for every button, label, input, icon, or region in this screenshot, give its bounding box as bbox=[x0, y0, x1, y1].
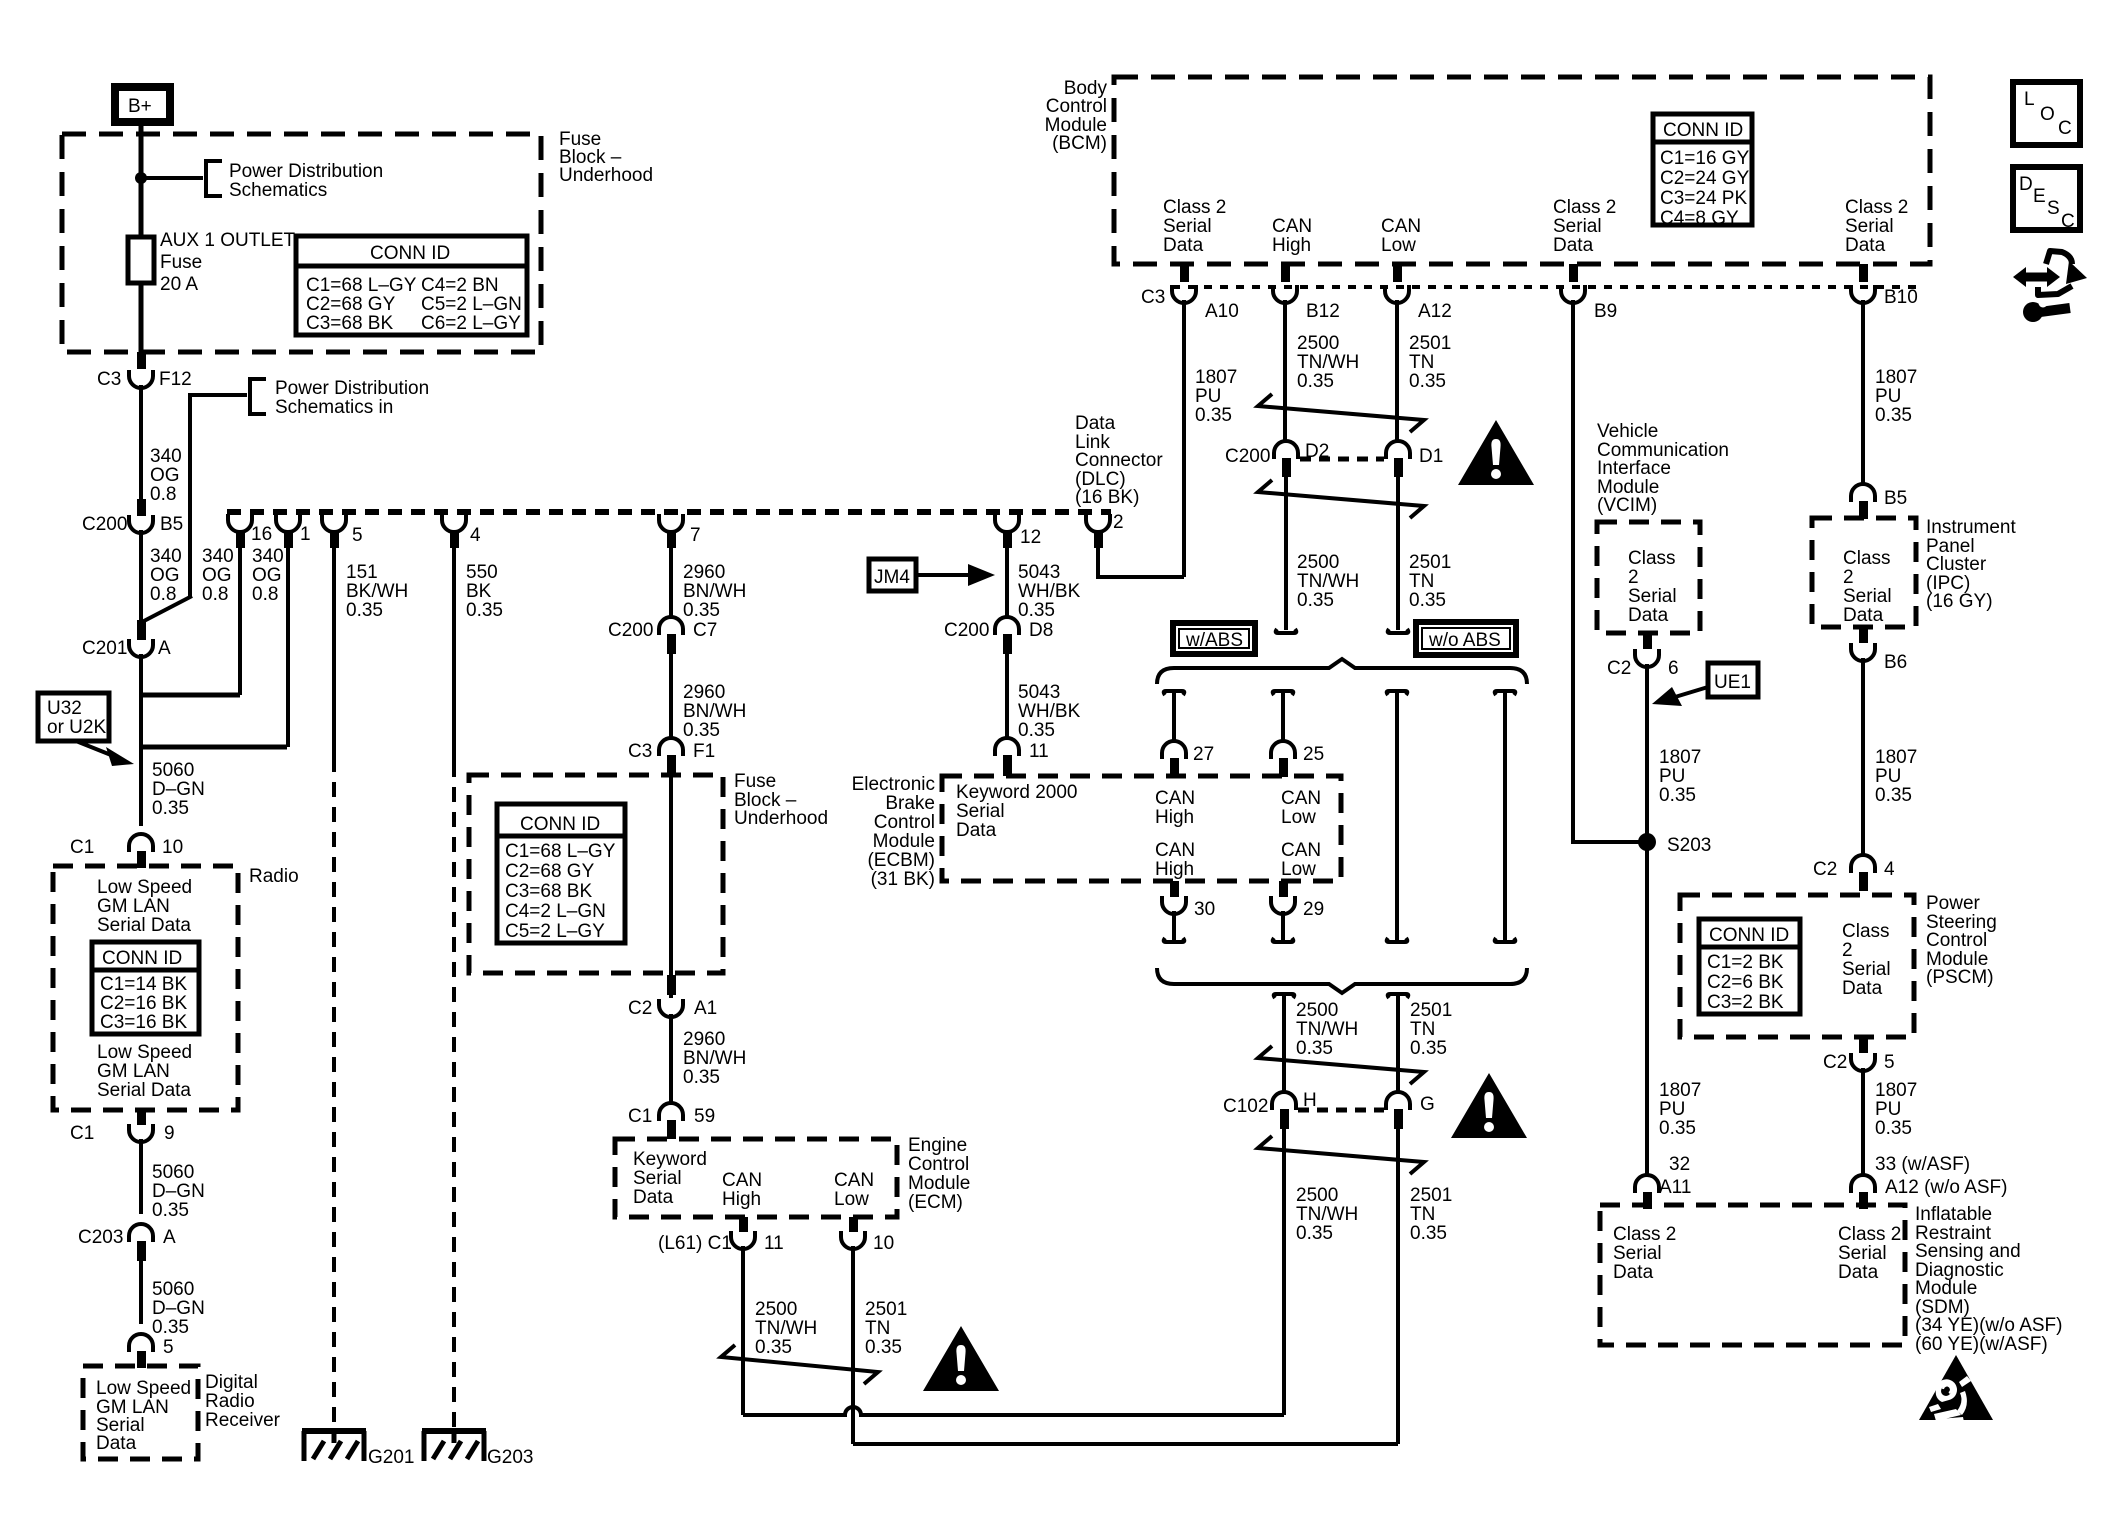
wire end col1 top bbox=[1164, 691, 1185, 695]
connector pin 29 stub bbox=[1279, 881, 1288, 897]
svg-text:(BCM): (BCM) bbox=[1052, 133, 1107, 154]
svg-text:C200: C200 bbox=[944, 620, 989, 641]
svg-text:0.8: 0.8 bbox=[150, 584, 176, 605]
connector A11 SDM bbox=[1635, 1175, 1659, 1193]
svg-text:32: 32 bbox=[1669, 1154, 1690, 1175]
svg-text:PU: PU bbox=[1659, 1099, 1685, 1120]
connector pin 2 bbox=[1086, 514, 1110, 532]
wire pin 4 dashed to ground bbox=[452, 762, 456, 1429]
svg-text:5: 5 bbox=[352, 525, 363, 546]
svg-text:1807: 1807 bbox=[1195, 367, 1237, 388]
svg-text:C1=68 L–GY: C1=68 L–GY bbox=[505, 841, 616, 862]
svg-text:12: 12 bbox=[1020, 527, 1041, 548]
svg-text:C1=68 L–GY: C1=68 L–GY bbox=[306, 275, 417, 296]
svg-text:D: D bbox=[2019, 174, 2033, 195]
svg-text:TN: TN bbox=[1409, 571, 1434, 592]
wire pin 4 down bbox=[452, 538, 456, 762]
svg-text:C200: C200 bbox=[82, 514, 127, 535]
svg-text:5: 5 bbox=[1884, 1052, 1895, 1073]
C200 dashed link D2 D1 bbox=[1300, 457, 1384, 462]
svg-text:C3=68 BK: C3=68 BK bbox=[306, 313, 393, 334]
svg-text:Underhood: Underhood bbox=[734, 808, 828, 829]
connector C3 F12 stub bbox=[137, 352, 146, 369]
twisted pair symbol upper bbox=[1258, 394, 1424, 432]
brace bottom bbox=[1157, 968, 1527, 993]
svg-text:2501: 2501 bbox=[1409, 333, 1451, 354]
svg-text:Low: Low bbox=[1381, 235, 1416, 256]
svg-text:2500: 2500 bbox=[1297, 333, 1339, 354]
svg-text:C2=24 GY: C2=24 GY bbox=[1660, 168, 1750, 189]
svg-text:Serial: Serial bbox=[1845, 216, 1894, 237]
wire end col H top bbox=[1274, 994, 1295, 998]
svg-text:Low: Low bbox=[834, 1189, 869, 1210]
svg-text:A11: A11 bbox=[1659, 1177, 1691, 1198]
svg-text:Sensing and: Sensing and bbox=[1915, 1241, 2021, 1262]
svg-text:Data: Data bbox=[1075, 413, 1116, 434]
svg-text:C3: C3 bbox=[628, 741, 652, 762]
svg-text:PU: PU bbox=[1875, 766, 1901, 787]
svg-text:C2=68 GY: C2=68 GY bbox=[505, 861, 595, 882]
svg-text:C2: C2 bbox=[1607, 658, 1631, 679]
IPC dashed box bbox=[1812, 518, 1916, 627]
svg-text:TN/WH: TN/WH bbox=[1297, 352, 1359, 373]
svg-text:E: E bbox=[2033, 186, 2046, 207]
CONN ID table PSCM bbox=[1699, 919, 1800, 1014]
connector C3 F1 bbox=[659, 738, 683, 756]
connector pin 29 bbox=[1271, 896, 1295, 914]
wire D8 down bbox=[1005, 648, 1009, 738]
svg-text:2960: 2960 bbox=[683, 682, 725, 703]
connector A12 bbox=[1385, 285, 1409, 303]
svg-text:Keyword 2000: Keyword 2000 bbox=[956, 782, 1077, 803]
svg-text:Data: Data bbox=[96, 1433, 137, 1454]
svg-text:UE1: UE1 bbox=[1714, 672, 1751, 693]
connector C2 6 stub bbox=[1643, 633, 1652, 649]
svg-text:Serial Data: Serial Data bbox=[97, 1080, 191, 1101]
connector C1 10 bbox=[129, 834, 153, 852]
svg-text:C1=16 GY: C1=16 GY bbox=[1660, 148, 1750, 169]
ground G201 bbox=[302, 1431, 366, 1461]
connector C102 H bbox=[1272, 1092, 1296, 1110]
svg-text:C2: C2 bbox=[1813, 859, 1837, 880]
wire end col2 top bbox=[1273, 691, 1294, 695]
svg-text:16: 16 bbox=[251, 524, 272, 545]
svg-text:5043: 5043 bbox=[1018, 562, 1060, 583]
wire end D2 bbox=[1276, 629, 1297, 633]
svg-text:C2: C2 bbox=[628, 998, 652, 1019]
wire D2 down bbox=[1284, 472, 1288, 630]
svg-text:0.35: 0.35 bbox=[1195, 405, 1232, 426]
svg-text:1807: 1807 bbox=[1875, 1080, 1917, 1101]
connector C2 6 bbox=[1635, 649, 1659, 667]
svg-text:5043: 5043 bbox=[1018, 682, 1060, 703]
wire B9 down to S203 bbox=[1573, 300, 1647, 842]
svg-text:Vehicle: Vehicle bbox=[1597, 421, 1658, 442]
connector C200 C7 bbox=[659, 617, 683, 635]
svg-text:F1: F1 bbox=[693, 741, 715, 762]
svg-text:A: A bbox=[158, 638, 171, 659]
wire col3 bbox=[1395, 691, 1399, 941]
connector pin 30 stub bbox=[1170, 881, 1179, 897]
connector C1 11 bbox=[731, 1231, 755, 1249]
connector pin 16 bbox=[228, 514, 252, 532]
wire inside fuse block 2 bbox=[669, 770, 673, 998]
svg-text:Data: Data bbox=[633, 1187, 674, 1208]
svg-text:2: 2 bbox=[1842, 940, 1853, 961]
connector pin 5 bbox=[322, 514, 346, 532]
wire B5 down to C201 bbox=[139, 530, 143, 624]
svg-text:Low Speed: Low Speed bbox=[97, 1042, 192, 1063]
wire pin 16 down bbox=[238, 538, 242, 695]
wire diagonal to C201 bbox=[142, 596, 192, 622]
svg-text:0.8: 0.8 bbox=[150, 484, 176, 505]
connector B12 bbox=[1273, 285, 1297, 303]
svg-text:WH/BK: WH/BK bbox=[1018, 701, 1081, 722]
svg-text:11: 11 bbox=[764, 1233, 784, 1254]
svg-text:10: 10 bbox=[873, 1233, 894, 1254]
BCM connector dotted line bbox=[1172, 285, 1921, 289]
svg-text:C200: C200 bbox=[608, 620, 653, 641]
svg-text:w/o ABS: w/o ABS bbox=[1428, 630, 1501, 651]
wire pin 29 down bbox=[1281, 911, 1285, 941]
svg-text:U32: U32 bbox=[47, 698, 82, 719]
connector C1 59 bbox=[659, 1103, 683, 1121]
svg-text:0.35: 0.35 bbox=[683, 1067, 720, 1088]
connector C200 D8 bbox=[995, 617, 1019, 635]
svg-text:GM LAN: GM LAN bbox=[97, 896, 170, 917]
svg-text:5: 5 bbox=[163, 1337, 174, 1358]
svg-text:Data: Data bbox=[1842, 978, 1883, 999]
svg-text:C1=14 BK: C1=14 BK bbox=[100, 974, 187, 995]
svg-text:Data: Data bbox=[956, 820, 997, 841]
svg-text:CAN: CAN bbox=[834, 1170, 874, 1191]
warning triangle C102 bbox=[1451, 1073, 1527, 1138]
svg-text:A12: A12 bbox=[1418, 301, 1452, 322]
svg-text:TN: TN bbox=[1409, 352, 1434, 373]
svg-text:WH/BK: WH/BK bbox=[1018, 581, 1081, 602]
svg-text:5060: 5060 bbox=[152, 760, 194, 781]
svg-text:C1: C1 bbox=[70, 1123, 94, 1144]
svg-text:340: 340 bbox=[150, 546, 182, 567]
svg-text:11: 11 bbox=[1029, 741, 1049, 762]
svg-text:Instrument: Instrument bbox=[1926, 517, 2016, 538]
wire power distribution in down bbox=[190, 395, 247, 598]
svg-text:CAN: CAN bbox=[1281, 840, 1321, 861]
svg-text:JM4: JM4 bbox=[874, 567, 910, 588]
wire C201 down to radio bbox=[139, 654, 143, 826]
svg-text:Serial: Serial bbox=[1628, 586, 1677, 607]
wire end col3 top bbox=[1387, 691, 1408, 695]
svg-text:0.35: 0.35 bbox=[1875, 785, 1912, 806]
svg-text:BK/WH: BK/WH bbox=[346, 581, 408, 602]
bracket power distribution schematics in bbox=[250, 379, 266, 414]
splice S203 bbox=[1638, 833, 1656, 851]
U32 or U2K box bbox=[38, 693, 109, 741]
svg-text:(60 YE)(w/ASF): (60 YE)(w/ASF) bbox=[1915, 1334, 2048, 1355]
svg-text:Class 2: Class 2 bbox=[1613, 1224, 1676, 1245]
connector pin 25 bbox=[1271, 741, 1295, 759]
svg-text:0.8: 0.8 bbox=[202, 584, 228, 605]
svg-text:C2: C2 bbox=[1823, 1052, 1847, 1073]
svg-text:BN/WH: BN/WH bbox=[683, 581, 746, 602]
connector C201 A stub bbox=[137, 620, 146, 640]
svg-text:Data: Data bbox=[1628, 605, 1669, 626]
svg-text:1807: 1807 bbox=[1659, 747, 1701, 768]
svg-text:2500: 2500 bbox=[1297, 552, 1339, 573]
svg-text:TN/WH: TN/WH bbox=[1296, 1204, 1358, 1225]
svg-text:BN/WH: BN/WH bbox=[683, 1048, 746, 1069]
svg-text:Low Speed: Low Speed bbox=[97, 877, 192, 898]
svg-text:Schematics: Schematics bbox=[229, 180, 327, 201]
svg-text:(16 BK): (16 BK) bbox=[1075, 487, 1139, 508]
wire B+ down to fuse bbox=[139, 122, 144, 237]
swap arrows icon bbox=[2013, 267, 2060, 287]
connector B9 stub bbox=[1569, 264, 1578, 282]
connector B5 IPC bbox=[1851, 484, 1875, 502]
svg-text:PU: PU bbox=[1875, 386, 1901, 407]
svg-text:0.35: 0.35 bbox=[346, 600, 383, 621]
svg-text:Fuse: Fuse bbox=[734, 771, 776, 792]
svg-text:S203: S203 bbox=[1667, 835, 1711, 856]
svg-text:Electronic: Electronic bbox=[852, 774, 935, 795]
svg-text:C102: C102 bbox=[1223, 1096, 1268, 1117]
wire B10 down to IPC bbox=[1861, 300, 1865, 484]
connector C2 5 stub bbox=[1859, 1037, 1868, 1053]
svg-text:0.35: 0.35 bbox=[1018, 720, 1055, 741]
warning triangle upper bbox=[1458, 420, 1534, 485]
svg-text:G: G bbox=[1420, 1094, 1435, 1115]
svg-text:Class: Class bbox=[1842, 921, 1890, 942]
connector B12 stub bbox=[1281, 264, 1290, 282]
svg-text:340: 340 bbox=[252, 546, 284, 567]
svg-text:Low Speed: Low Speed bbox=[96, 1378, 191, 1399]
wire C2 5 down to SDM bbox=[1861, 1068, 1865, 1174]
wire ECM 10 horizontal to C102 G bbox=[853, 1442, 1398, 1446]
svg-text:or U2K: or U2K bbox=[47, 717, 106, 738]
connector C1 10 ECM stub bbox=[849, 1217, 858, 1232]
svg-text:33 (w/ASF): 33 (w/ASF) bbox=[1875, 1154, 1970, 1175]
svg-text:Serial: Serial bbox=[633, 1168, 682, 1189]
svg-text:High: High bbox=[1155, 807, 1194, 828]
junction node bbox=[135, 172, 147, 184]
connector C2 A1 stub bbox=[667, 975, 676, 995]
connector C200 B5 bbox=[129, 515, 153, 533]
arrow U32 to wire bbox=[76, 741, 116, 757]
svg-text:Control: Control bbox=[874, 812, 935, 833]
connector C1 9 bbox=[129, 1124, 153, 1142]
svg-text:C7: C7 bbox=[693, 620, 717, 641]
svg-text:Serial Data: Serial Data bbox=[97, 915, 191, 936]
svg-text:w/ABS: w/ABS bbox=[1185, 630, 1243, 651]
svg-text:B+: B+ bbox=[128, 96, 152, 117]
svg-text:BN/WH: BN/WH bbox=[683, 701, 746, 722]
connector pin 7 bbox=[659, 514, 683, 532]
wire B6 down to C2 4 bbox=[1861, 658, 1865, 855]
svg-text:Serial: Serial bbox=[956, 801, 1005, 822]
svg-text:C3=24 PK: C3=24 PK bbox=[1660, 188, 1747, 209]
wire tee from pin 16 bbox=[141, 693, 240, 698]
svg-text:Radio: Radio bbox=[249, 866, 299, 887]
svg-text:Class 2: Class 2 bbox=[1553, 197, 1616, 218]
connector C201 A bbox=[129, 639, 153, 657]
svg-text:High: High bbox=[722, 1189, 761, 1210]
svg-text:(PSCM): (PSCM) bbox=[1926, 967, 1994, 988]
svg-text:C3: C3 bbox=[97, 369, 121, 390]
svg-text:1807: 1807 bbox=[1659, 1080, 1701, 1101]
wire end col1 bottom bbox=[1164, 938, 1185, 942]
ECBM keyword 2000 dashed box bbox=[942, 776, 1341, 881]
svg-text:PU: PU bbox=[1195, 386, 1221, 407]
wire G down to ECM horizontal bbox=[1396, 1123, 1400, 1444]
svg-text:0.35: 0.35 bbox=[152, 1200, 189, 1221]
connector C102 G bbox=[1386, 1092, 1410, 1110]
connector A12 SDM bbox=[1851, 1175, 1875, 1193]
wire F12 down to C200 B5 bbox=[139, 385, 143, 499]
connector C200 B5 stub bbox=[137, 499, 146, 516]
connector C1 9 stub bbox=[137, 1108, 146, 1125]
digital radio receiver dashed box bbox=[83, 1366, 198, 1459]
DLC edge dashed line bbox=[227, 509, 1111, 515]
svg-text:C5=2 L–GN: C5=2 L–GN bbox=[421, 294, 522, 315]
svg-text:10: 10 bbox=[162, 837, 183, 858]
svg-text:Underhood: Underhood bbox=[559, 165, 653, 186]
svg-text:D8: D8 bbox=[1029, 620, 1053, 641]
svg-text:2960: 2960 bbox=[683, 1029, 725, 1050]
svg-text:2: 2 bbox=[1113, 512, 1124, 533]
svg-text:Receiver: Receiver bbox=[205, 1410, 281, 1431]
svg-text:Data: Data bbox=[1553, 235, 1594, 256]
w/o ABS box bbox=[1416, 622, 1516, 655]
wire C1 9 down bbox=[139, 1139, 143, 1214]
svg-text:TN: TN bbox=[865, 1318, 890, 1339]
wire col2 to pin 25 bbox=[1281, 691, 1285, 740]
svg-text:Control: Control bbox=[1926, 930, 1987, 951]
svg-text:PU: PU bbox=[1659, 766, 1685, 787]
CONN ID table fuse block 2 bbox=[497, 804, 625, 943]
svg-text:0.35: 0.35 bbox=[1297, 371, 1334, 392]
svg-text:D–GN: D–GN bbox=[152, 1181, 205, 1202]
svg-text:Brake: Brake bbox=[885, 793, 935, 814]
svg-text:Module: Module bbox=[873, 831, 935, 852]
svg-text:CONN ID: CONN ID bbox=[370, 243, 450, 264]
svg-text:CAN: CAN bbox=[1272, 216, 1312, 237]
svg-text:(ECM): (ECM) bbox=[908, 1192, 963, 1213]
svg-text:Serial: Serial bbox=[1613, 1243, 1662, 1264]
svg-text:Data: Data bbox=[1613, 1262, 1654, 1283]
svg-text:B5: B5 bbox=[1884, 488, 1907, 509]
svg-text:340: 340 bbox=[202, 546, 234, 567]
svg-text:20 A: 20 A bbox=[160, 274, 198, 295]
svg-text:C3=16 BK: C3=16 BK bbox=[100, 1012, 187, 1033]
svg-text:2500: 2500 bbox=[1296, 1185, 1338, 1206]
svg-text:59: 59 bbox=[694, 1106, 715, 1127]
svg-text:CAN: CAN bbox=[1281, 788, 1321, 809]
SDM dashed box bbox=[1600, 1205, 1905, 1345]
connector C3 F12 bbox=[129, 370, 153, 388]
fuse block underhood 2 dashed box bbox=[469, 775, 723, 973]
svg-text:High: High bbox=[1272, 235, 1311, 256]
svg-text:Low: Low bbox=[1281, 859, 1316, 880]
svg-text:Class 2: Class 2 bbox=[1163, 197, 1226, 218]
svg-text:0.35: 0.35 bbox=[683, 720, 720, 741]
svg-text:Schematics in: Schematics in bbox=[275, 397, 393, 418]
svg-text:2501: 2501 bbox=[1409, 552, 1451, 573]
arrow UE1 to wire bbox=[1675, 687, 1708, 697]
svg-text:Serial: Serial bbox=[1843, 586, 1892, 607]
svg-text:Data: Data bbox=[1838, 1262, 1879, 1283]
wire A1 down to 59 bbox=[669, 1014, 673, 1103]
wire end D1 bbox=[1388, 629, 1409, 633]
connector C203 A bbox=[129, 1224, 153, 1242]
svg-text:Serial: Serial bbox=[1838, 1243, 1887, 1264]
wire ECM 10 down bbox=[851, 1246, 855, 1444]
svg-text:Inflatable: Inflatable bbox=[1915, 1204, 1992, 1225]
warning triangle ECM bbox=[923, 1326, 999, 1391]
svg-text:0.35: 0.35 bbox=[683, 600, 720, 621]
svg-text:0.35: 0.35 bbox=[466, 600, 503, 621]
svg-text:C: C bbox=[2061, 211, 2075, 232]
svg-text:D–GN: D–GN bbox=[152, 1298, 205, 1319]
wire A12 down bbox=[1395, 300, 1399, 441]
svg-text:Radio: Radio bbox=[205, 1391, 255, 1412]
wire C7 down to F1 bbox=[669, 648, 673, 738]
radio dashed box bbox=[53, 866, 238, 1110]
svg-text:CAN: CAN bbox=[722, 1170, 762, 1191]
wire pin 1 down bbox=[286, 538, 290, 747]
svg-text:0.35: 0.35 bbox=[1296, 1038, 1333, 1059]
svg-text:Control: Control bbox=[908, 1154, 969, 1175]
svg-text:5060: 5060 bbox=[152, 1162, 194, 1183]
svg-text:25: 25 bbox=[1303, 744, 1324, 765]
svg-text:Serial: Serial bbox=[1163, 216, 1212, 237]
CONN ID table radio bbox=[92, 942, 199, 1034]
LOC box bbox=[2013, 82, 2080, 145]
svg-text:7: 7 bbox=[690, 525, 701, 546]
connector B9 bbox=[1561, 285, 1585, 303]
svg-text:9: 9 bbox=[164, 1123, 175, 1144]
svg-text:OG: OG bbox=[252, 565, 282, 586]
svg-text:550: 550 bbox=[466, 562, 498, 583]
PSCM dashed box bbox=[1680, 895, 1914, 1037]
svg-text:C2=68 GY: C2=68 GY bbox=[306, 294, 396, 315]
svg-text:4: 4 bbox=[1884, 859, 1895, 880]
fuse block underhood dashed box bbox=[62, 134, 541, 352]
connector B10 bbox=[1851, 285, 1875, 303]
svg-text:Data: Data bbox=[1843, 605, 1884, 626]
svg-text:(ECBM): (ECBM) bbox=[867, 850, 935, 871]
svg-text:G203: G203 bbox=[487, 1447, 533, 1468]
svg-text:0.35: 0.35 bbox=[1297, 590, 1334, 611]
wire pin 5 dashed to ground bbox=[332, 757, 336, 1429]
svg-text:Digital: Digital bbox=[205, 1372, 258, 1393]
svg-text:(VCIM): (VCIM) bbox=[1597, 495, 1657, 516]
brace top bbox=[1157, 659, 1527, 684]
CONN ID table 1 bbox=[296, 236, 527, 335]
wire D1 down bbox=[1396, 472, 1400, 630]
svg-text:Engine: Engine bbox=[908, 1135, 967, 1156]
svg-text:G201: G201 bbox=[368, 1447, 414, 1468]
svg-text:A: A bbox=[163, 1227, 176, 1248]
svg-text:0.35: 0.35 bbox=[1410, 1223, 1447, 1244]
svg-text:A1: A1 bbox=[694, 998, 717, 1019]
svg-text:C203: C203 bbox=[78, 1227, 123, 1248]
svg-text:A12 (w/o ASF): A12 (w/o ASF) bbox=[1885, 1177, 2008, 1198]
svg-text:OG: OG bbox=[150, 465, 180, 486]
wire ECM 11 horizontal to C102 H bbox=[743, 1407, 1284, 1415]
svg-text:Connector: Connector bbox=[1075, 450, 1163, 471]
connector B6 bbox=[1851, 643, 1875, 661]
svg-text:Class: Class bbox=[1843, 548, 1891, 569]
